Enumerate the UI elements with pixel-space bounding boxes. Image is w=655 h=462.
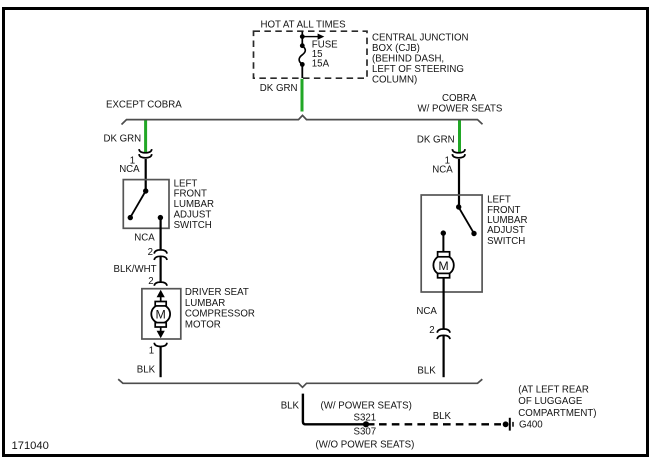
svg-text:NCA: NCA: [119, 164, 140, 175]
svg-text:171040: 171040: [12, 440, 49, 452]
svg-text:BLK: BLK: [417, 365, 436, 376]
svg-text:DK GRN: DK GRN: [260, 83, 298, 94]
splice S321/S307 junction: [363, 421, 369, 427]
bottom bus wire: [118, 379, 482, 387]
svg-text:G400: G400: [519, 419, 543, 430]
svg-text:BLK: BLK: [281, 400, 300, 411]
svg-text:ADJUST: ADJUST: [487, 225, 525, 236]
svg-text:BLK: BLK: [433, 411, 452, 422]
svg-text:OF LUGGAGE: OF LUGGAGE: [518, 396, 583, 407]
svg-text:LEFT: LEFT: [487, 194, 511, 205]
svg-text:NCA: NCA: [432, 164, 453, 175]
motor symbol right: [433, 233, 453, 292]
inline connector C2 left: [154, 250, 167, 260]
wire DK GRN left branch: [144, 120, 147, 152]
svg-text:COLUMN): COLUMN): [372, 75, 417, 86]
svg-text:SWITCH: SWITCH: [487, 236, 525, 247]
connector half-arc below motor box: [154, 343, 167, 347]
switch contacts left: [128, 188, 163, 220]
top bus wire: [122, 115, 483, 124]
svg-text:LUMBAR: LUMBAR: [185, 298, 225, 309]
svg-text:BLK/WHT: BLK/WHT: [114, 264, 157, 275]
svg-text:COBRA: COBRA: [442, 93, 477, 104]
motor box (driver seat lumbar compressor motor): [142, 289, 181, 339]
svg-text:(AT LEFT REAR: (AT LEFT REAR: [518, 384, 589, 395]
svg-text:BLK: BLK: [137, 364, 156, 375]
inline connector C2 right: [437, 329, 450, 339]
svg-text:COMPARTMENT): COMPARTMENT): [518, 408, 596, 419]
ground G400 symbol: [503, 418, 513, 431]
wire from left switch pin 2: [160, 218, 162, 250]
svg-text:CENTRAL JUNCTION: CENTRAL JUNCTION: [372, 33, 469, 44]
svg-text:NCA: NCA: [134, 233, 155, 244]
inline connector C1 left (arrow into cup): [139, 149, 152, 158]
connector half-arc at motor box top: [154, 282, 167, 286]
wire BLK/WHT: [160, 256, 162, 281]
svg-text:EXCEPT COBRA: EXCEPT COBRA: [106, 99, 182, 110]
svg-text:1: 1: [149, 345, 154, 356]
svg-text:SWITCH: SWITCH: [174, 220, 212, 231]
motor M1 symbol: [151, 290, 170, 338]
svg-text:NCA: NCA: [416, 306, 437, 317]
svg-text:DK GRN: DK GRN: [417, 134, 455, 145]
svg-text:(W/O POWER SEATS): (W/O POWER SEATS): [316, 439, 415, 450]
svg-text:2: 2: [148, 247, 153, 258]
svg-text:M: M: [438, 259, 448, 273]
wire into right switch: [458, 159, 460, 207]
svg-text:2: 2: [429, 325, 434, 336]
wire DK GRN right branch: [458, 120, 461, 152]
svg-text:(W/ POWER SEATS): (W/ POWER SEATS): [321, 400, 412, 411]
svg-text:HOT AT ALL TIMES: HOT AT ALL TIMES: [261, 19, 347, 30]
svg-text:(BEHIND DASH,: (BEHIND DASH,: [372, 54, 444, 65]
svg-text:W/ POWER SEATS: W/ POWER SEATS: [418, 103, 503, 114]
wire BLK dashed to ground: [379, 423, 501, 425]
svg-text:MOTOR: MOTOR: [185, 320, 221, 331]
switch contacts right: [441, 204, 477, 236]
central junction box (CJB) dashed box: [254, 31, 368, 78]
svg-text:2: 2: [148, 276, 153, 287]
wire BLK left: [160, 347, 162, 377]
svg-text:DK GRN: DK GRN: [104, 133, 142, 144]
wire BLK right: [443, 335, 445, 377]
fuse F15 (15A): [299, 32, 324, 79]
wire below right box: [443, 292, 445, 329]
svg-text:DRIVER SEAT: DRIVER SEAT: [185, 287, 249, 298]
svg-text:15A: 15A: [312, 58, 330, 69]
inline connector C1 right: [452, 149, 465, 158]
wire BLK to splice S321: [303, 394, 375, 425]
svg-text:ADJUST: ADJUST: [174, 209, 212, 220]
wire into left switch: [145, 159, 147, 191]
svg-text:COMPRESSOR: COMPRESSOR: [185, 309, 255, 320]
switch box left: [123, 180, 169, 229]
svg-text:S307: S307: [354, 427, 377, 438]
switch box right (switch + motor): [421, 195, 482, 292]
svg-text:BOX (CJB): BOX (CJB): [372, 43, 420, 54]
svg-text:M: M: [156, 307, 166, 321]
svg-text:LEFT OF STEERING: LEFT OF STEERING: [372, 64, 464, 75]
wire DK GRN from fuse to bus: [301, 79, 304, 112]
